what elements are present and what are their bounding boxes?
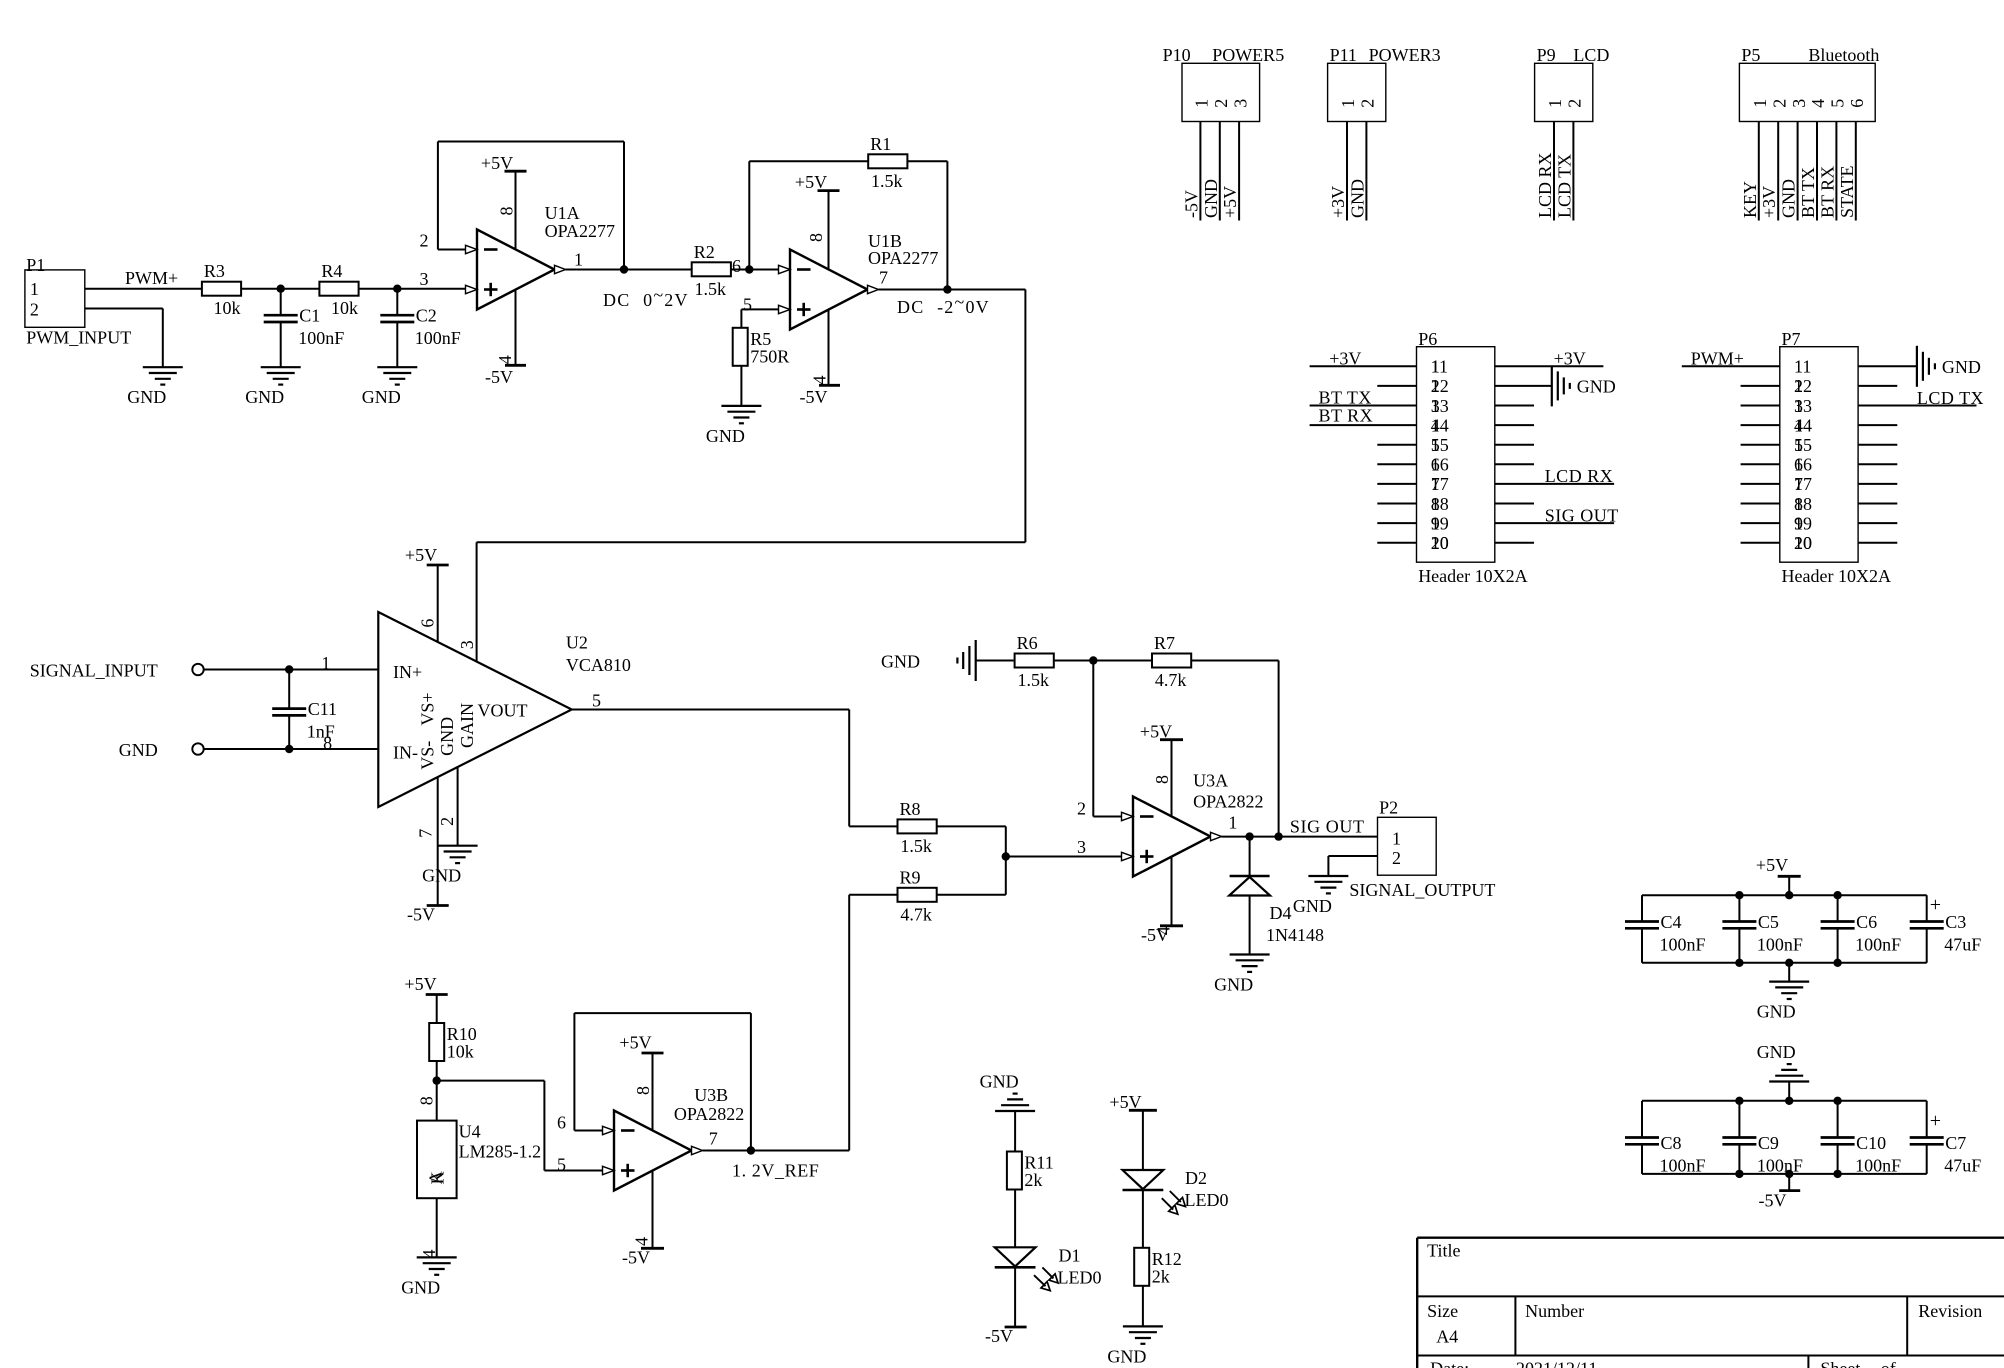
junction U3A pin3 node bbox=[1002, 852, 1010, 860]
svg-text:16: 16 bbox=[1431, 455, 1449, 475]
svg-text:15: 15 bbox=[1794, 435, 1812, 455]
svg-text:LM285-1.2: LM285-1.2 bbox=[459, 1142, 541, 1162]
svg-text:Header 10X2A: Header 10X2A bbox=[1418, 566, 1527, 586]
svg-text:1: 1 bbox=[574, 250, 583, 270]
svg-text:1.5k: 1.5k bbox=[900, 836, 932, 856]
LED D1 bbox=[995, 1247, 1036, 1266]
svg-text:BT RX: BT RX bbox=[1319, 406, 1374, 426]
wire pin8 +5V bbox=[828, 191, 830, 270]
LED D2 bbox=[1123, 1170, 1164, 1189]
power +5V bbox=[1778, 875, 1801, 878]
wire C4 bottom lead bbox=[1641, 928, 1643, 963]
wire pin bbox=[1219, 122, 1221, 221]
wire R8-R9 link bbox=[1005, 826, 1007, 894]
wire R10-U4 bbox=[436, 1061, 438, 1120]
svg-text:C9: C9 bbox=[1758, 1133, 1779, 1153]
svg-text:1: 1 bbox=[30, 279, 39, 299]
wire U1A pin2 bbox=[438, 249, 466, 251]
svg-text:6: 6 bbox=[1847, 99, 1867, 108]
wire to C1 bbox=[280, 289, 282, 316]
wire pin right bbox=[1495, 385, 1552, 387]
op-amp U3A bbox=[1133, 797, 1211, 877]
junction top rail bbox=[1735, 891, 1743, 899]
junction top rail bbox=[1833, 891, 1841, 899]
svg-text:2: 2 bbox=[1769, 99, 1789, 108]
svg-text:PWM+: PWM+ bbox=[125, 268, 178, 288]
svg-text:SIG OUT: SIG OUT bbox=[1290, 817, 1365, 837]
wire pin left bbox=[1741, 542, 1780, 544]
wire pin bbox=[1199, 122, 1201, 221]
junction U1B out node bbox=[943, 285, 951, 293]
op-amp U1B bbox=[790, 250, 868, 330]
svg-text:11: 11 bbox=[1431, 357, 1448, 377]
svg-text:-5V: -5V bbox=[622, 1248, 650, 1268]
resistor R5 bbox=[733, 328, 748, 366]
svg-text:+5V: +5V bbox=[1756, 855, 1788, 875]
svg-text:P5: P5 bbox=[1741, 45, 1760, 65]
svg-text:12: 12 bbox=[1794, 376, 1812, 396]
resistor R7 bbox=[1152, 654, 1191, 668]
wire pin left bbox=[1741, 405, 1780, 407]
svg-text:STATE: STATE bbox=[1837, 165, 1857, 218]
wire feedback top bbox=[438, 141, 624, 143]
connector P1 bbox=[25, 270, 85, 327]
wire pin right bbox=[1858, 385, 1897, 387]
svg-text:KEY: KEY bbox=[1740, 181, 1760, 218]
svg-text:1: 1 bbox=[1392, 829, 1401, 849]
capacitor C9 bbox=[1722, 1136, 1756, 1139]
wire pin6 +5V bbox=[437, 565, 439, 642]
wire R8 right bbox=[937, 825, 1006, 827]
resistor R6 bbox=[1015, 654, 1054, 668]
svg-text:C11: C11 bbox=[308, 699, 337, 719]
svg-text:17: 17 bbox=[1431, 474, 1449, 494]
capacitor C8 bbox=[1625, 1136, 1659, 1139]
svg-text:R8: R8 bbox=[900, 799, 921, 819]
wire R9 left bbox=[849, 894, 897, 896]
wire U4-ground bbox=[436, 1198, 438, 1257]
wire pin8 +5V bbox=[652, 1053, 654, 1130]
svg-text:VS-: VS- bbox=[417, 741, 437, 770]
resistor R4 bbox=[319, 282, 358, 296]
wire C5 top lead bbox=[1738, 895, 1740, 921]
svg-text:SIGNAL_OUTPUT: SIGNAL_OUTPUT bbox=[1349, 880, 1495, 900]
capacitor C1 bbox=[264, 314, 298, 317]
wire pin left bbox=[1741, 463, 1780, 465]
terminal GND bbox=[192, 743, 203, 754]
wire -5V rail bbox=[1642, 1173, 1927, 1175]
svg-text:GND: GND bbox=[1214, 975, 1253, 995]
wire R9 right bbox=[937, 894, 1006, 896]
wire R1 right bbox=[908, 160, 948, 162]
svg-text:-5V: -5V bbox=[1759, 1191, 1787, 1211]
wire pin left bbox=[1377, 385, 1416, 387]
junction bottom rail bbox=[1785, 959, 1793, 967]
svg-text:5: 5 bbox=[592, 690, 601, 710]
svg-text:1: 1 bbox=[1545, 99, 1565, 108]
svg-text:-5V: -5V bbox=[407, 905, 435, 925]
svg-text:+5V: +5V bbox=[1220, 186, 1240, 218]
wire pin right bbox=[1495, 444, 1534, 446]
wire +5V stub bbox=[1788, 876, 1790, 895]
svg-text:1nF: 1nF bbox=[307, 722, 335, 742]
svg-text:Date:: Date: bbox=[1430, 1359, 1469, 1368]
wire pin right bbox=[1495, 542, 1534, 544]
svg-text:P2: P2 bbox=[1379, 797, 1398, 817]
capacitor C4 bbox=[1625, 920, 1659, 923]
svg-text:3: 3 bbox=[1789, 99, 1809, 108]
wire to U3B pin5 bbox=[544, 1170, 602, 1172]
svg-text:7: 7 bbox=[415, 829, 435, 838]
terminal SIGNAL_INPUT bbox=[192, 664, 203, 675]
svg-text:R7: R7 bbox=[1154, 633, 1175, 653]
wire C8 bottom lead bbox=[1641, 1144, 1643, 1174]
svg-text:GND: GND bbox=[437, 717, 457, 756]
wire pin left bbox=[1310, 405, 1417, 407]
wire R5-ground bbox=[740, 366, 742, 406]
wire C7 top lead bbox=[1926, 1101, 1928, 1138]
wire pin right bbox=[1495, 483, 1614, 485]
svg-text:100nF: 100nF bbox=[415, 328, 461, 348]
wire pin left bbox=[1377, 483, 1416, 485]
wire U1B output bbox=[879, 289, 1026, 291]
svg-text:2k: 2k bbox=[1152, 1266, 1170, 1286]
wire pin right bbox=[1858, 463, 1897, 465]
junction U1A out node bbox=[620, 265, 628, 273]
svg-text:1. 2V_REF: 1. 2V_REF bbox=[732, 1161, 819, 1181]
resistor R11 bbox=[1007, 1152, 1022, 1190]
svg-text:2: 2 bbox=[30, 299, 39, 319]
power +5V bbox=[1160, 738, 1183, 741]
svg-text:GND: GND bbox=[1942, 357, 1981, 377]
connector P2 bbox=[1378, 817, 1437, 875]
svg-text:A4: A4 bbox=[1436, 1327, 1458, 1347]
wire feedback right bbox=[623, 142, 625, 270]
power -5V bbox=[1779, 1189, 1800, 1192]
wire up to R1 bbox=[748, 161, 750, 269]
svg-text:OPA2277: OPA2277 bbox=[868, 248, 938, 268]
svg-text:-5V: -5V bbox=[485, 367, 513, 387]
wire R3-R4 bbox=[241, 288, 319, 290]
wire across bbox=[477, 541, 1026, 543]
wire down to R8 bbox=[848, 710, 850, 827]
resistor R3 bbox=[202, 282, 241, 296]
svg-text:+3V: +3V bbox=[1554, 349, 1586, 369]
resistor R12 bbox=[1134, 1248, 1149, 1286]
junction bottom rail bbox=[1735, 959, 1743, 967]
wire down to U3A pin2 bbox=[1092, 661, 1094, 817]
svg-text:C1: C1 bbox=[299, 306, 320, 326]
svg-text:SIGNAL_INPUT: SIGNAL_INPUT bbox=[30, 661, 158, 681]
svg-text:13: 13 bbox=[1794, 396, 1812, 416]
svg-text:8: 8 bbox=[497, 207, 517, 216]
svg-text:C7: C7 bbox=[1945, 1133, 1966, 1153]
wire pin right bbox=[1495, 424, 1534, 426]
wire pin right bbox=[1858, 424, 1897, 426]
reference U4 LM285-1.2 bbox=[417, 1121, 457, 1199]
power +5V bbox=[818, 189, 840, 192]
wire pin left bbox=[1377, 463, 1416, 465]
svg-text:PWM_INPUT: PWM_INPUT bbox=[26, 328, 131, 348]
resistor R9 bbox=[898, 888, 937, 902]
svg-text:5: 5 bbox=[743, 295, 752, 315]
svg-text:GAIN: GAIN bbox=[457, 703, 477, 748]
svg-text:PWM+: PWM+ bbox=[1691, 349, 1744, 369]
svg-text:4: 4 bbox=[1808, 99, 1828, 108]
svg-text:100nF: 100nF bbox=[1757, 935, 1803, 955]
svg-text:5: 5 bbox=[557, 1155, 566, 1175]
wire +5V to R10 bbox=[436, 995, 438, 1023]
svg-text:P6: P6 bbox=[1418, 329, 1437, 349]
svg-text:100nF: 100nF bbox=[1855, 935, 1901, 955]
wire U3A pin3 bbox=[1006, 856, 1122, 858]
wire pin bbox=[1816, 122, 1818, 221]
connector P9 bbox=[1535, 63, 1593, 121]
svg-text:GND: GND bbox=[980, 1072, 1019, 1092]
ground sideways bbox=[975, 640, 977, 681]
svg-text:8: 8 bbox=[1152, 775, 1172, 784]
power -5V bbox=[1005, 1326, 1027, 1329]
wire pin bbox=[1855, 122, 1857, 221]
junction C11 bottom bbox=[285, 745, 293, 753]
wire pin left bbox=[1310, 424, 1417, 426]
svg-text:6: 6 bbox=[557, 1113, 566, 1133]
svg-text:1: 1 bbox=[1228, 813, 1237, 833]
wire C7 bottom lead bbox=[1926, 1144, 1928, 1174]
svg-text:4: 4 bbox=[810, 376, 830, 385]
svg-text:VS+: VS+ bbox=[417, 692, 437, 725]
wire pin right bbox=[1495, 522, 1614, 524]
svg-text:4: 4 bbox=[495, 355, 515, 364]
wire R9 down to REF bbox=[848, 895, 850, 1151]
svg-text:14: 14 bbox=[1794, 415, 1812, 435]
svg-text:47uF: 47uF bbox=[1944, 1156, 1981, 1176]
wire pin right bbox=[1858, 365, 1917, 367]
power -5V bbox=[1160, 924, 1183, 927]
wire pin8 +5V bbox=[515, 171, 517, 249]
svg-text:13: 13 bbox=[1431, 396, 1449, 416]
svg-text:Size: Size bbox=[1427, 1301, 1458, 1321]
wire PWM+ net bbox=[85, 288, 202, 290]
svg-text:R1: R1 bbox=[870, 134, 891, 154]
svg-text:3: 3 bbox=[1230, 99, 1250, 108]
wire pin left bbox=[1741, 483, 1780, 485]
svg-text:LCD TX: LCD TX bbox=[1917, 388, 1984, 408]
wire pin8 +5V bbox=[1171, 740, 1173, 817]
svg-text:Revision: Revision bbox=[1918, 1301, 1982, 1321]
svg-text:1N4148: 1N4148 bbox=[1266, 925, 1324, 945]
wire IN+ bbox=[203, 669, 378, 671]
wire R1 down bbox=[946, 161, 948, 289]
svg-text:+5V: +5V bbox=[405, 545, 437, 565]
wire R1 left bbox=[749, 160, 868, 162]
wire R7 right bbox=[1192, 660, 1279, 662]
svg-text:2k: 2k bbox=[1024, 1170, 1042, 1190]
svg-text:LCD RX: LCD RX bbox=[1545, 466, 1614, 486]
wire pin bbox=[1365, 122, 1367, 221]
svg-text:D2: D2 bbox=[1185, 1168, 1207, 1188]
svg-text:GND: GND bbox=[1107, 1346, 1146, 1366]
power +5V bbox=[426, 993, 448, 996]
wire pin right bbox=[1495, 365, 1604, 367]
svg-text:8: 8 bbox=[417, 1096, 437, 1105]
svg-text:VOUT: VOUT bbox=[478, 700, 528, 720]
svg-text:LCD RX: LCD RX bbox=[1535, 152, 1555, 218]
svg-text:2: 2 bbox=[1392, 848, 1401, 868]
wire R6-R7 bbox=[1055, 660, 1152, 662]
svg-text:VCA810: VCA810 bbox=[566, 655, 631, 675]
wire C9 top lead bbox=[1738, 1101, 1740, 1138]
wire D4-ground bbox=[1249, 896, 1251, 955]
svg-text:-5V: -5V bbox=[800, 387, 828, 407]
connector P11 bbox=[1328, 63, 1386, 121]
ground inverted bbox=[1769, 1080, 1809, 1082]
svg-text:GND: GND bbox=[1577, 376, 1616, 396]
svg-text:GND: GND bbox=[1201, 179, 1221, 218]
svg-text:+: + bbox=[1930, 894, 1941, 916]
svg-text:2: 2 bbox=[1565, 99, 1585, 108]
svg-text:Sheet: Sheet bbox=[1820, 1359, 1860, 1368]
svg-text:1.5k: 1.5k bbox=[695, 279, 727, 299]
wire pin4 -5V bbox=[828, 310, 830, 386]
ground bbox=[377, 366, 417, 368]
svg-text:C3: C3 bbox=[1945, 912, 1966, 932]
wire GND rail bbox=[1642, 962, 1927, 964]
svg-text:7: 7 bbox=[709, 1129, 718, 1149]
svg-text:20: 20 bbox=[1794, 533, 1812, 553]
svg-text:GND: GND bbox=[362, 387, 401, 407]
svg-text:47uF: 47uF bbox=[1944, 935, 1981, 955]
wire U3B output bbox=[703, 1150, 850, 1152]
wire U1A output bbox=[566, 269, 692, 271]
svg-text:+5V: +5V bbox=[1140, 722, 1172, 742]
power +5V bbox=[505, 170, 527, 173]
wire pin bbox=[1777, 122, 1779, 221]
wire U1B pin5 bbox=[741, 308, 778, 310]
junction U3A pin2 node bbox=[1089, 656, 1097, 664]
svg-text:18: 18 bbox=[1794, 494, 1812, 514]
wire C8 top lead bbox=[1641, 1101, 1643, 1138]
svg-text:6: 6 bbox=[417, 619, 437, 628]
wire pin right bbox=[1858, 542, 1897, 544]
wire feedback right bbox=[750, 1013, 752, 1150]
svg-text:OPA2822: OPA2822 bbox=[1193, 792, 1263, 812]
svg-text:2: 2 bbox=[1358, 99, 1378, 108]
junction top rail bbox=[1785, 1097, 1793, 1105]
svg-text:BT RX: BT RX bbox=[1817, 166, 1837, 218]
wire feedback left bbox=[573, 1013, 575, 1130]
op-amp U3B bbox=[614, 1111, 692, 1191]
ground bbox=[1230, 953, 1270, 955]
wire pin7 -5V bbox=[437, 777, 439, 905]
amplifier U2 VCA810 bbox=[378, 612, 571, 807]
wire C3 top lead bbox=[1926, 895, 1928, 921]
svg-text:100nF: 100nF bbox=[1855, 1156, 1901, 1176]
svg-text:GND: GND bbox=[881, 652, 920, 672]
svg-text:-5V: -5V bbox=[985, 1326, 1013, 1346]
svg-text:C2: C2 bbox=[416, 306, 437, 326]
wire pin4 -5V bbox=[515, 290, 517, 366]
ground bbox=[1769, 980, 1809, 982]
svg-text:2021/12/11: 2021/12/11 bbox=[1516, 1359, 1597, 1368]
junction U1B in node bbox=[745, 265, 753, 273]
wire to C11 bbox=[288, 670, 290, 709]
wire gnd to R6 bbox=[976, 660, 1014, 662]
ground bbox=[1308, 875, 1348, 877]
wire +5V to D2 bbox=[1142, 1110, 1144, 1170]
svg-text:+3V: +3V bbox=[1329, 349, 1361, 369]
svg-text:+5V: +5V bbox=[1109, 1092, 1141, 1112]
svg-text:C8: C8 bbox=[1661, 1133, 1682, 1153]
wire IN- bbox=[203, 748, 378, 750]
wire pin right bbox=[1858, 503, 1897, 505]
svg-text:3: 3 bbox=[1077, 837, 1086, 857]
junction U4 node bbox=[433, 1076, 441, 1084]
wire pin left bbox=[1741, 424, 1780, 426]
svg-text:P1: P1 bbox=[26, 255, 45, 275]
wire pin left bbox=[1682, 365, 1780, 367]
svg-text:10k: 10k bbox=[447, 1042, 474, 1062]
ground bbox=[1123, 1325, 1163, 1327]
wire pin left bbox=[1310, 365, 1417, 367]
wire pin4 -5V bbox=[1171, 857, 1173, 926]
wire pin left bbox=[1741, 503, 1780, 505]
svg-text:GND: GND bbox=[1293, 896, 1332, 916]
svg-text:8: 8 bbox=[633, 1086, 653, 1095]
wire C11 down bbox=[288, 715, 290, 749]
svg-text:3: 3 bbox=[457, 640, 477, 649]
wire P1 pin2 bbox=[85, 308, 163, 310]
svg-text:P11: P11 bbox=[1330, 45, 1357, 65]
wire U3B pin6 bbox=[574, 1130, 602, 1132]
wire pin bbox=[1797, 122, 1799, 221]
svg-text:U3B: U3B bbox=[694, 1085, 728, 1105]
junction top rail bbox=[1735, 1097, 1743, 1105]
svg-text:4.7k: 4.7k bbox=[900, 904, 932, 924]
wire -5V stub bbox=[1788, 1174, 1790, 1191]
resistor R1 bbox=[868, 154, 907, 168]
svg-text:100nF: 100nF bbox=[1660, 1156, 1706, 1176]
wire C10 bottom lead bbox=[1837, 1144, 1839, 1174]
svg-text:P9: P9 bbox=[1537, 45, 1556, 65]
ground bbox=[721, 405, 761, 407]
svg-text:C4: C4 bbox=[1661, 912, 1682, 932]
svg-text:10k: 10k bbox=[331, 298, 358, 318]
svg-text:U2: U2 bbox=[566, 632, 588, 652]
capacitor C3 bbox=[1910, 920, 1944, 923]
wire pin bbox=[1572, 122, 1574, 221]
svg-text:GND: GND bbox=[127, 387, 166, 407]
svg-text:-5V: -5V bbox=[1141, 925, 1169, 945]
wire VOUT bbox=[572, 709, 850, 711]
wire C10 top lead bbox=[1837, 1101, 1839, 1138]
resistor R8 bbox=[898, 819, 937, 833]
svg-text:OPA2822: OPA2822 bbox=[674, 1104, 744, 1124]
wire down bbox=[1024, 290, 1026, 543]
svg-text:4: 4 bbox=[632, 1237, 652, 1246]
svg-text:19: 19 bbox=[1794, 513, 1812, 533]
wire to U2 pin3 bbox=[476, 542, 478, 661]
svg-text:Title: Title bbox=[1427, 1241, 1460, 1261]
svg-text:GND: GND bbox=[1347, 179, 1367, 218]
wire pin right bbox=[1495, 463, 1534, 465]
svg-text:+: + bbox=[1930, 1110, 1941, 1132]
ground bbox=[261, 366, 301, 368]
wire pin bbox=[1346, 122, 1348, 221]
wire C6 bottom lead bbox=[1837, 928, 1839, 963]
connector P7 bbox=[1780, 347, 1858, 563]
wire R2 to U1B bbox=[731, 269, 779, 271]
